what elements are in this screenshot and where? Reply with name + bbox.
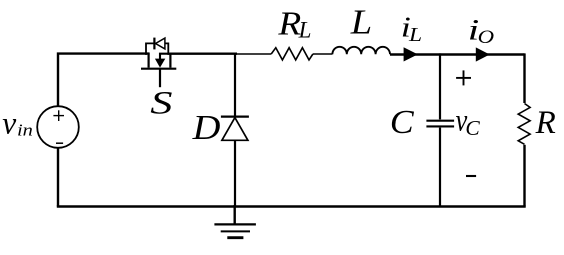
- transistor S: channel bar: [141, 68, 176, 70]
- transistor S: source connection and arrow shaft: [160, 54, 170, 59]
- capacitor C top plate: [426, 120, 454, 122]
- svg-text:in: in: [17, 121, 33, 140]
- svg-text:D: D: [192, 107, 221, 146]
- svg-text:C: C: [390, 103, 415, 141]
- transistor S: right source stub: [169, 53, 171, 67]
- wire: bottom ground rail: [57, 205, 526, 208]
- svg-text:L: L: [350, 2, 372, 41]
- wire: diode branch upper: [234, 53, 236, 116]
- voltage source Vin circle: [37, 106, 79, 148]
- label i_O: [468, 12, 494, 47]
- wire: inductor to top-right corner: [390, 53, 525, 56]
- transistor S: body diode loop left side: [146, 43, 154, 55]
- svg-text:O: O: [478, 26, 494, 48]
- label v_in: [2, 105, 33, 140]
- label i_L: [401, 13, 422, 46]
- wire: source bottom lead: [57, 148, 59, 207]
- diode D cathode bar: [221, 115, 249, 117]
- current arrow i_L: [404, 47, 418, 61]
- capacitor C bottom plate: [426, 125, 454, 127]
- wire: right vertical lower: [523, 145, 525, 207]
- ground: bar 3: [227, 236, 243, 239]
- svg-text:C: C: [465, 116, 480, 140]
- transistor S: body diode triangle: [156, 38, 165, 49]
- minus sign below v_C: [466, 175, 476, 177]
- wire: switch to diode junction: [169, 53, 237, 55]
- wire: junction to resistor RL (thin): [236, 53, 271, 55]
- label R_L: [277, 4, 311, 43]
- svg-text:L: L: [298, 18, 312, 43]
- plus sign above v_C: [456, 70, 471, 85]
- wire: right vertical upper: [523, 53, 525, 103]
- wire: RL to inductor L (thin): [313, 53, 333, 55]
- transistor S: left drain stub: [148, 53, 150, 67]
- transistor S: body diode cathode bar: [153, 38, 155, 50]
- svg-text:R: R: [535, 105, 556, 141]
- svg-text:L: L: [408, 24, 422, 46]
- transistor S: arrow head: [155, 59, 165, 68]
- voltage source plus sign: [53, 110, 64, 121]
- wire: top-left horizontal and left vertical down to source top: [58, 54, 150, 107]
- label v_C: [456, 103, 481, 140]
- transistor S: body diode loop right side: [165, 43, 168, 55]
- ground: stem: [233, 205, 235, 226]
- wire: capacitor branch lower: [439, 128, 441, 207]
- ground: bar 2: [221, 230, 250, 232]
- resistor R zigzag: [518, 104, 530, 145]
- svg-text:v: v: [2, 105, 16, 140]
- wire: capacitor branch upper: [439, 53, 441, 119]
- inductor L coil: [332, 47, 390, 54]
- ground: bar 1: [214, 223, 256, 225]
- wire: diode branch lower: [234, 140, 236, 206]
- voltage source minus sign: [56, 142, 63, 144]
- transistor S: gate lead: [159, 69, 161, 88]
- svg-text:S: S: [150, 85, 172, 121]
- resistor RL zigzag: [271, 48, 313, 60]
- diode D triangle: [222, 118, 248, 141]
- current arrow i_O: [476, 47, 490, 61]
